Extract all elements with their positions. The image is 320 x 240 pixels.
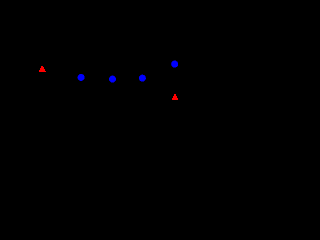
probe marker P2 (red triangle) [172,94,178,100]
node B (junction dot) [109,76,116,83]
node A (junction dot) [78,74,85,81]
schematic background [0,0,218,135]
node C (junction dot) [139,75,146,82]
probe marker P1 (red triangle) [39,66,46,72]
node D (junction dot) [171,61,178,68]
